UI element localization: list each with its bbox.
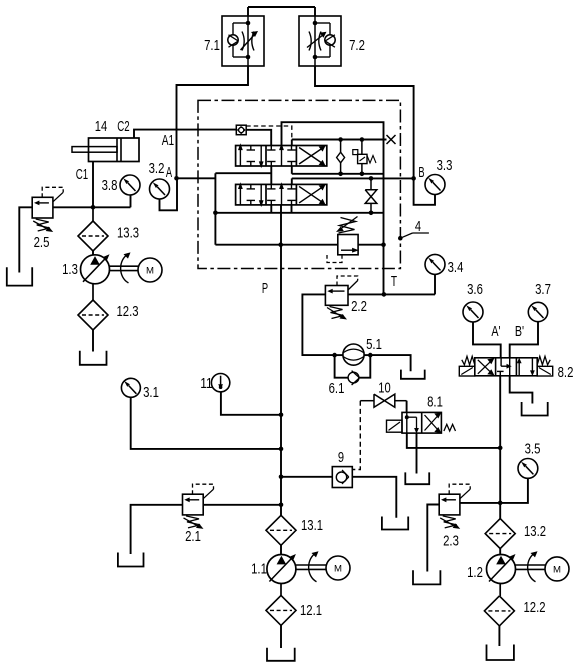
wire 12.3 to tank [92, 330, 94, 352]
wire H1 (P-top to T column) [282, 122, 384, 294]
wire gauge 3.8 stem [130, 195, 132, 207]
label 8.1 [427, 394, 443, 411]
svg-text:3.3: 3.3 [437, 157, 453, 174]
wire under relief/diamond to T column [335, 172, 384, 177]
svg-text:M: M [146, 265, 154, 276]
wire P line (main pump column) [280, 205, 282, 516]
wire 8.1 drain to tank [416, 433, 418, 473]
label C2 [117, 118, 129, 135]
wire C2 port to orifice [134, 130, 236, 138]
label 3.2 [149, 160, 165, 177]
shutoff valve 10 [360, 394, 406, 407]
wire lower feeder [215, 242, 337, 247]
label 12.1 [300, 602, 322, 619]
label 2.3 [443, 533, 459, 550]
label 14 [95, 118, 107, 135]
label 3.4 [448, 259, 464, 276]
svg-text:7.1: 7.1 [204, 37, 220, 54]
tank for 8.2 T port [522, 402, 548, 416]
label T [391, 273, 397, 290]
svg-text:12.2: 12.2 [524, 599, 546, 616]
label 2.5 [34, 234, 50, 251]
orifice fitting on A1 line [236, 125, 246, 135]
pressure gauge 3.7 [528, 302, 547, 321]
wire valve V1 bottom-right to T line [292, 166, 335, 174]
flow control valve 7.2 (throttle with check bypass) [299, 16, 341, 66]
svg-text:7.2: 7.2 [349, 37, 365, 54]
wire flowmeter to tank [370, 355, 410, 371]
wire 12.1 to tank [280, 625, 282, 648]
svg-text:A': A' [491, 323, 500, 340]
svg-text:2.2: 2.2 [351, 298, 367, 315]
wire gauge 3.7 to B' port [510, 322, 538, 358]
label 12.3 [117, 303, 139, 320]
wire orifice to valve V1 top [246, 130, 271, 146]
label 3.5 [525, 441, 541, 458]
label C1 [76, 166, 88, 183]
wire gauge 3.2 stem [160, 179, 178, 210]
svg-text:1.2: 1.2 [467, 564, 483, 581]
wire connecting 7.1 and 7.2 top [248, 7, 315, 16]
label 13.3 [117, 225, 139, 242]
filter 13.2 [485, 519, 515, 549]
wire gauge 3.5 stem [498, 478, 528, 505]
svg-text:8.2: 8.2 [558, 364, 574, 381]
svg-text:M: M [553, 564, 561, 575]
wire X line [292, 137, 387, 142]
svg-text:B: B [418, 164, 424, 181]
svg-text:3.2: 3.2 [149, 160, 165, 177]
svg-text:3.4: 3.4 [448, 259, 464, 276]
check valve 6.1 [348, 371, 359, 385]
wire A line into manifold [174, 176, 215, 181]
wire filter 13.2 to pump [499, 549, 501, 555]
tank below 2.3 [413, 570, 440, 584]
tank below 12.1 [267, 648, 295, 661]
wire gauge 3.6 to A' port [473, 322, 501, 358]
label 3.6 [467, 281, 483, 298]
wire 8.1 to pump line [407, 433, 503, 450]
label 3.8 [102, 177, 118, 194]
wire 2.2 outlet [302, 294, 334, 355]
wire P to check 9 [279, 475, 333, 480]
label 1.2 [467, 564, 483, 581]
wire 2.5 inlet line [53, 205, 131, 210]
label 2.2 [351, 298, 367, 315]
shaft pump 1.2 to motor [516, 551, 546, 582]
label 7.1 [204, 37, 220, 54]
wire check 9 to tank [352, 477, 396, 518]
suction filter 12.2 [484, 584, 514, 626]
wire 12.2 to tank [498, 626, 500, 646]
tank below 12.3 [80, 351, 107, 365]
svg-text:13.1: 13.1 [301, 517, 323, 534]
wire gauge 3.3 stem [414, 178, 435, 204]
wire 7.1 to node A [177, 66, 249, 178]
label 11 [200, 375, 212, 392]
thermometer 11 [211, 374, 229, 392]
wire V2 top-right to B line [291, 178, 293, 184]
svg-text:2.5: 2.5 [34, 234, 50, 251]
label 9 [338, 449, 344, 466]
svg-text:3.5: 3.5 [525, 441, 541, 458]
label P [262, 280, 268, 297]
svg-text:C1: C1 [76, 166, 88, 183]
wire A feeder to V1-bottom/V2-top [215, 166, 271, 184]
plugged port X [387, 135, 396, 144]
pressure gauge 3.8 [120, 175, 140, 195]
label A' [491, 323, 500, 340]
wire 8.2 P' line down [499, 376, 501, 519]
wire relief outlet to T column [358, 242, 386, 247]
electric motor for 1.3 [138, 258, 162, 282]
relief valve 2.1 [183, 484, 214, 529]
svg-text:3.1: 3.1 [143, 384, 159, 401]
wire valve 10 to 8.1 [406, 401, 408, 413]
svg-text:6.1: 6.1 [329, 380, 345, 397]
svg-text:B': B' [515, 323, 524, 340]
wire C1 port down [92, 162, 94, 208]
flow meter 5.1 [343, 344, 364, 365]
relief valve 2.3 [439, 484, 470, 529]
pump 1.3 (variable displacement) [81, 254, 110, 283]
pilot line dashed from orifice to valve V1 [246, 126, 292, 140]
label B [418, 164, 424, 181]
label 13.2 [524, 523, 546, 540]
svg-text:C2: C2 [117, 118, 129, 135]
pressure gauge 3.4 [425, 254, 445, 274]
wire 2.5 outlet to tank [19, 207, 32, 272]
label A1 [162, 132, 174, 149]
lower bus wire [213, 211, 383, 216]
wire V2 bottom ports to lower bus [271, 205, 291, 213]
wire gauge 3.4 stem [434, 275, 436, 295]
label 8.2 [558, 364, 574, 381]
svg-text:11: 11 [200, 375, 212, 392]
label 13.1 [301, 517, 323, 534]
svg-text:T: T [391, 273, 397, 290]
pressure gauge 3.5 [518, 459, 538, 479]
electric motor for 1.2 [545, 557, 569, 581]
pressure gauge 3.3 [425, 175, 445, 195]
wire A feeder vertical [214, 173, 216, 245]
tank below 2.5 [7, 267, 32, 285]
svg-text:3.6: 3.6 [467, 281, 483, 298]
wire filter 13.1 to pump [280, 545, 282, 554]
hydraulic cylinder 14 [72, 138, 139, 162]
svg-text:12.3: 12.3 [117, 303, 139, 320]
label 6.1 [329, 380, 345, 397]
svg-text:1.3: 1.3 [62, 261, 78, 278]
wire T line [348, 292, 435, 297]
svg-text:14: 14 [95, 118, 107, 135]
label 1.3 [62, 261, 78, 278]
wire thermometer 11 to P line [221, 392, 283, 417]
label 12.2 [524, 599, 546, 616]
wire flowmeter bypass [332, 353, 372, 378]
tank for check 9 line [382, 517, 408, 530]
wire 2.1 inlet [203, 503, 283, 508]
suction filter 12.3 [78, 284, 108, 330]
wire filter to pump 1.3 [92, 251, 94, 255]
wire 2.1 outlet to tank [131, 505, 183, 554]
svg-text:2.3: 2.3 [443, 533, 459, 550]
tank below 2.1 [118, 553, 144, 567]
wire gauge 3.1 to P line [131, 397, 284, 451]
solenoid directional valve 8.2 [459, 356, 552, 376]
suction filter 12.1 [266, 584, 296, 626]
label 4 [415, 218, 421, 235]
svg-text:P: P [262, 280, 268, 297]
leader line for label 4 [398, 233, 429, 241]
label 3.7 [535, 281, 551, 298]
directional valve V1 (upper) [236, 143, 327, 168]
svg-text:A: A [166, 164, 172, 181]
wire B line [292, 176, 416, 181]
solenoid valve 8.1 [387, 412, 456, 433]
label 3.1 [143, 384, 159, 401]
relief valve 2.2 [325, 276, 357, 320]
svg-text:1.1: 1.1 [251, 561, 267, 578]
manifold enclosure (dash-dot boundary) [198, 100, 400, 268]
relief valve 2.5 [32, 187, 63, 232]
shutoff valve (bypass A-B) [365, 178, 377, 212]
wire valve V1 top-right port to X line [291, 140, 293, 146]
pump 1.2 (variable displacement) [487, 554, 516, 584]
svg-text:13.3: 13.3 [117, 225, 139, 242]
pressure gauge 3.2 [150, 179, 170, 199]
label 10 [378, 380, 390, 397]
pressure gauge 3.6 [463, 302, 483, 322]
tank below 12.2 [487, 645, 514, 661]
electric motor for 1.1 [326, 556, 350, 580]
svg-text:5.1: 5.1 [366, 336, 382, 353]
shaft pump 1.1 to motor [296, 551, 326, 582]
svg-text:3.7: 3.7 [535, 281, 551, 298]
label B' [515, 323, 524, 340]
tank for flow meter line [401, 370, 425, 379]
check diamond on X line [337, 140, 345, 174]
svg-text:8.1: 8.1 [427, 394, 443, 411]
wire 2.3 outlet to tank [427, 505, 439, 572]
label 1.1 [251, 561, 267, 578]
svg-text:9: 9 [338, 449, 344, 466]
svg-text:M: M [334, 563, 342, 574]
label 5.1 [366, 336, 382, 353]
pressure gauge 3.1 [121, 378, 140, 397]
filter 13.1 [266, 515, 296, 545]
main relief valve (inside manifold) [327, 217, 359, 263]
tank for 8.1 drain [405, 472, 429, 484]
label 3.3 [437, 157, 453, 174]
directional valve V2 (lower) [236, 182, 327, 207]
flow control valve 7.1 (throttle with check bypass) [222, 16, 264, 66]
svg-text:3.8: 3.8 [102, 177, 118, 194]
pilot relief valve with solenoid (manifold top) [353, 140, 376, 174]
shaft pump 1.3 to motor [110, 252, 139, 283]
svg-text:4: 4 [415, 218, 421, 235]
wire 2.3 inlet [460, 502, 500, 504]
pilot line valve 10 to check 9 [352, 401, 360, 470]
check valve 9 [332, 467, 352, 488]
svg-text:A1: A1 [162, 132, 174, 149]
wire 8.2 T' port to tank [510, 376, 533, 404]
wire 7.2 to node B [315, 66, 414, 178]
svg-text:10: 10 [378, 380, 390, 397]
svg-text:12.1: 12.1 [300, 602, 322, 619]
svg-text:13.2: 13.2 [524, 523, 546, 540]
filter 13.3 [78, 207, 108, 251]
label A [166, 164, 172, 181]
label 2.1 [185, 528, 201, 545]
pump 1.1 (variable displacement) [267, 554, 296, 584]
label 7.2 [349, 37, 365, 54]
svg-text:2.1: 2.1 [185, 528, 201, 545]
